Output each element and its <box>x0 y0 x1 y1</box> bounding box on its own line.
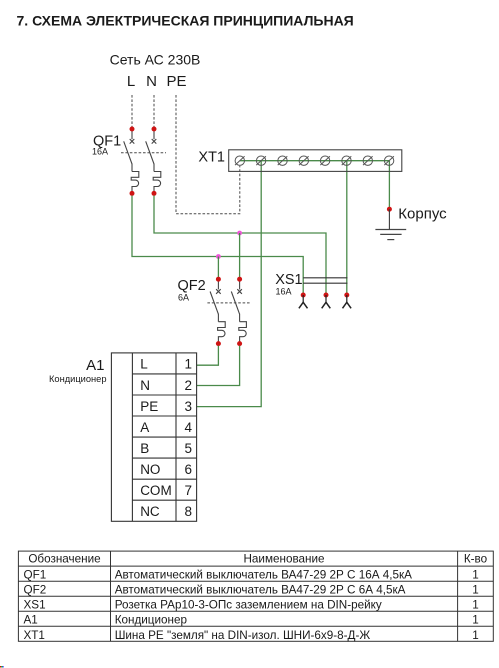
svg-text:N: N <box>140 378 150 393</box>
svg-text:B: B <box>140 441 149 456</box>
svg-text:XS1: XS1 <box>24 599 46 612</box>
wire L: QF1 pole1 to XS1 left prong <box>132 196 303 293</box>
svg-text:Автоматический выключатель ВА4: Автоматический выключатель ВА47-29 2Р С … <box>115 569 412 582</box>
svg-text:Сеть АС 230В: Сеть АС 230В <box>110 52 201 68</box>
XT1 terminal 7 <box>363 156 373 165</box>
socket XS1 left contact fork <box>299 295 308 308</box>
svg-text:1: 1 <box>472 569 479 582</box>
svg-text:Кондиционер: Кондиционер <box>49 374 107 384</box>
socket XS1 right contact dot (PE) <box>344 293 349 298</box>
socket XS1 body (double bar) <box>303 278 347 283</box>
svg-text:QF1: QF1 <box>24 569 47 582</box>
wire L supply (dashed) <box>131 95 133 127</box>
svg-text:16А: 16А <box>276 286 292 296</box>
breaker QF1 pole 1 output dot <box>130 191 135 196</box>
svg-text:А1: А1 <box>86 357 104 374</box>
breaker QF2 pole 2 <box>231 279 246 343</box>
svg-text:Автоматический выключатель ВА4: Автоматический выключатель ВА47-29 2Р С … <box>115 584 406 597</box>
svg-text:L: L <box>140 357 148 372</box>
svg-text:3: 3 <box>185 399 193 414</box>
svg-text:PE: PE <box>166 73 186 90</box>
XT1 terminal 6 <box>342 156 352 165</box>
junction dot N tap to QF2 (magenta) <box>237 231 242 236</box>
svg-text:1: 1 <box>472 614 479 627</box>
scan artifact pixels bottom-left <box>0 666 1 668</box>
svg-text:2: 2 <box>185 378 193 393</box>
svg-text:1: 1 <box>472 599 479 612</box>
svg-text:PE: PE <box>140 399 158 414</box>
junction dot L tap to QF2 (magenta) <box>216 254 221 259</box>
svg-text:6: 6 <box>185 462 193 477</box>
XT1 terminal 3 <box>278 156 288 165</box>
socket XS1 right contact fork <box>343 295 352 308</box>
svg-text:16А: 16А <box>92 146 108 156</box>
socket XS1 left contact dot (L) <box>301 293 306 298</box>
device A1 body <box>111 353 196 521</box>
svg-text:К-во: К-во <box>464 553 488 566</box>
svg-text:5: 5 <box>185 441 193 456</box>
breaker QF2 pole 1 input dot <box>216 277 221 282</box>
svg-text:8: 8 <box>185 504 193 519</box>
svg-text:Шина РЕ "земля" на DIN-изол. Ш: Шина РЕ "земля" на DIN-изол. ШНИ-6х9-8-Д… <box>115 629 371 642</box>
svg-text:1: 1 <box>472 629 479 642</box>
wire: dot to chassis ground <box>388 209 390 229</box>
svg-text:XT1: XT1 <box>198 150 225 166</box>
wire: N tap down to QF2 pole 2 <box>239 233 241 277</box>
svg-text:NC: NC <box>140 504 160 519</box>
chassis ground symbol <box>375 230 406 240</box>
svg-text:1: 1 <box>185 357 193 372</box>
svg-text:QF2: QF2 <box>24 584 47 597</box>
junction dot N at QF1 input <box>152 127 157 132</box>
wire: XT1 terminal 6 to XS1 right prong (PE) <box>346 161 348 293</box>
breaker QF1 pole 1 <box>124 129 139 193</box>
wire N supply (dashed) <box>153 95 155 127</box>
XT1 terminal 5 <box>320 156 330 165</box>
svg-text:L: L <box>127 73 135 90</box>
svg-text:1: 1 <box>472 584 479 597</box>
junction dot at chassis <box>387 207 392 212</box>
components table grid <box>18 551 493 641</box>
XT1 terminal 2 <box>256 156 266 165</box>
wire N: QF1 pole2 to XS1 middle prong <box>154 196 326 293</box>
breaker QF2 pole 2 input dot <box>237 277 242 282</box>
svg-text:А1: А1 <box>24 614 38 627</box>
wire: XT1 terminal 2 to A1 terminal 3 (PE) <box>197 161 262 407</box>
socket XS1 middle contact fork <box>322 295 331 308</box>
wire: XT1 terminal 8 down to chassis <box>388 161 390 208</box>
wire: QF2 pole1 to A1 terminal 1 <box>197 346 219 366</box>
breaker QF1 linkage (dashed) <box>121 152 166 154</box>
wire: QF2 pole2 to A1 terminal 2 <box>197 346 240 386</box>
terminal block XT1 body <box>229 150 402 172</box>
terminal block XT1 green bus <box>240 160 389 162</box>
svg-text:Наименование: Наименование <box>243 553 324 566</box>
breaker QF2 pole 1 output dot <box>216 341 221 346</box>
svg-text:NO: NO <box>140 462 160 477</box>
XT1 terminal 1 <box>235 156 245 165</box>
svg-text:N: N <box>146 73 157 90</box>
svg-text:A: A <box>140 420 149 435</box>
svg-text:Обозначение: Обозначение <box>28 553 100 566</box>
wire: L tap down to QF2 pole 1 <box>217 257 219 278</box>
svg-text:4: 4 <box>185 420 193 435</box>
svg-text:7. СХЕМА ЭЛЕКТРИЧЕСКАЯ ПРИНЦИП: 7. СХЕМА ЭЛЕКТРИЧЕСКАЯ ПРИНЦИПИАЛЬНАЯ <box>17 12 354 28</box>
svg-text:ХТ1: ХТ1 <box>24 629 45 642</box>
XT1 terminal 8 <box>384 156 394 165</box>
junction dot L at QF1 input <box>130 127 135 132</box>
svg-text:Корпус: Корпус <box>398 205 447 222</box>
svg-text:Розетка РАр10-3-ОПс заземление: Розетка РАр10-3-ОПс заземлением на DIN-р… <box>115 599 382 612</box>
breaker QF2 linkage (dashed) <box>207 302 250 304</box>
breaker QF1 pole 2 <box>146 129 161 193</box>
wire PE supply to XT1 terminal 1 (dashed) <box>176 95 240 214</box>
svg-text:Кондиционер: Кондиционер <box>115 614 188 627</box>
XT1 terminal 4 <box>299 156 309 165</box>
svg-text:6А: 6А <box>178 292 189 302</box>
breaker QF2 pole 2 output dot <box>237 341 242 346</box>
socket XS1 middle contact dot (N) <box>324 293 329 298</box>
svg-text:COM: COM <box>140 483 172 498</box>
svg-text:7: 7 <box>185 483 193 498</box>
breaker QF1 pole 2 output dot <box>152 191 157 196</box>
breaker QF2 pole 1 <box>210 279 225 343</box>
